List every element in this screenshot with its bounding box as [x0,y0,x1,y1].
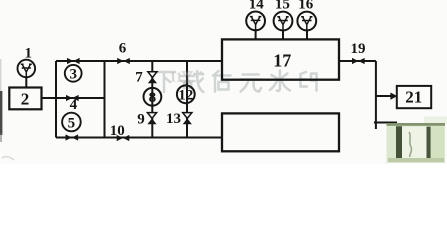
valve above gauge 3 [67,58,80,64]
svg-text:6: 6 [119,41,127,57]
flowmeter circle 12 [177,85,195,103]
flowmeter circle 8 [144,88,162,106]
gauge circle 14 [246,12,265,31]
char wu [240,75,261,92]
box 17 [222,39,339,79]
svg-text:4: 4 [70,97,78,113]
gauge circle 16 [297,12,316,31]
char shui [270,71,290,91]
wire branch B [186,61,188,138]
arrow to box 21 [376,93,397,100]
wire circle1 to box2 [25,77,27,87]
scan artifact bottom left smudge [2,157,14,160]
valve below gauge 5 [66,134,79,140]
wire left rail [55,61,57,138]
svg-text:21: 21 [405,88,422,107]
lower chamber box [222,113,339,151]
svg-text:7: 7 [135,70,143,86]
valve 19 [352,58,365,64]
char hou [213,71,231,92]
wire pipe1 top header [56,60,222,62]
valve 9 [147,113,156,125]
stub to gauge 14 [255,30,257,39]
wire branch A [151,61,153,138]
gauge circle 3 [65,65,82,82]
wire ledge to photo [374,122,397,124]
svg-text:17: 17 [273,50,291,70]
svg-text:13: 13 [166,111,181,127]
svg-text:5: 5 [68,115,76,131]
char yin [301,72,317,91]
gauge circle 15 [274,12,293,31]
svg-text:2: 2 [21,90,30,109]
valve 6 [117,58,130,64]
gauge circle 5 [62,113,81,132]
valve 11 (washed by watermark) [183,72,192,84]
wire pipe3 bottom header [56,137,222,139]
wire drop after valve 19 [375,61,377,129]
svg-text:8: 8 [149,90,157,106]
svg-text:15: 15 [275,0,290,12]
watermark text 下载后无水印 [153,71,317,93]
photo watermark bottom right [387,117,447,164]
svg-text:10: 10 [110,123,125,139]
svg-text:3: 3 [69,67,77,83]
char zai [181,71,203,92]
valve 13 [183,113,192,125]
scan artifact left edge streak [0,59,2,142]
svg-text:16: 16 [298,0,314,12]
box 21 [397,86,431,108]
stub to gauge 15 [282,31,284,40]
svg-text:12: 12 [178,88,193,104]
char xia [153,72,175,92]
svg-text:1: 1 [24,45,32,61]
svg-text:9: 9 [137,112,145,128]
svg-text:11: 11 [169,71,182,86]
svg-text:14: 14 [249,0,265,12]
valve 7 [148,72,157,84]
wire right rail [104,61,106,138]
box 2 [9,88,41,110]
wire pipe2 from box2 [42,97,105,99]
stub to gauge 16 [306,31,308,40]
valve 4 [66,95,79,101]
wire outlet from box 17 [339,60,376,62]
gauge circle 1 [18,60,36,78]
valve 10 [117,135,130,141]
svg-text:19: 19 [351,41,366,57]
